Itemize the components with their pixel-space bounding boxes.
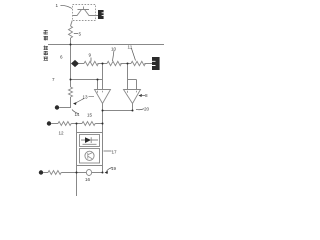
svg-text:8: 8 (145, 93, 148, 98)
svg-text:5: 5 (79, 32, 82, 37)
svg-text:12: 12 (59, 131, 65, 136)
svg-text:6: 6 (60, 55, 63, 60)
svg-text:19: 19 (111, 166, 117, 171)
svg-text:17: 17 (112, 150, 118, 155)
svg-text:11: 11 (128, 45, 133, 50)
svg-text:1: 1 (56, 3, 59, 8)
svg-text:20: 20 (144, 107, 150, 112)
svg-text:9: 9 (89, 53, 92, 58)
svg-text:13: 13 (83, 95, 89, 100)
svg-text:7: 7 (52, 77, 55, 82)
svg-text:15: 15 (87, 113, 93, 118)
svg-text:16: 16 (85, 177, 91, 182)
svg-text:14: 14 (75, 112, 81, 117)
svg-text:10: 10 (111, 47, 117, 52)
